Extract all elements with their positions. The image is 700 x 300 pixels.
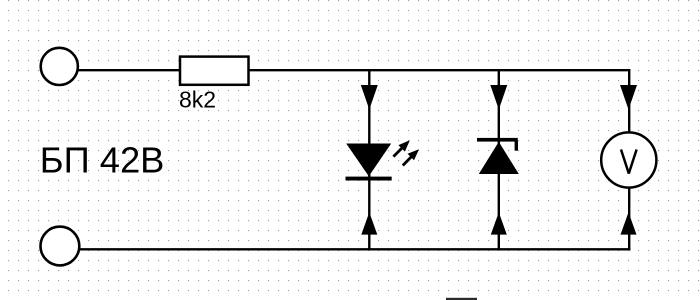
terminal bottom-left <box>41 227 80 266</box>
LED cathode bar <box>346 177 392 181</box>
wire top rail <box>79 69 631 71</box>
wire bottom rail <box>79 248 630 250</box>
clipped black mark at bottom edge <box>446 298 477 300</box>
voltmeter U1 circle <box>601 132 656 187</box>
current arrow down, voltmeter branch <box>620 85 637 110</box>
resistor value label 8k2 <box>179 87 216 113</box>
svg-text:8k2: 8k2 <box>179 87 216 113</box>
label БП 42В <box>40 140 165 181</box>
resistor 8k2 <box>180 57 249 85</box>
wire zener branch <box>498 69 500 250</box>
LED light arrow 2 <box>403 149 419 165</box>
terminal top-left <box>41 48 78 85</box>
zener cathode bar <box>477 138 518 142</box>
svg-text:БП 42В: БП 42В <box>40 140 165 181</box>
current arrow down, zener branch <box>490 85 507 110</box>
wire LED branch <box>368 69 370 250</box>
LED light arrow 1 <box>393 140 409 156</box>
LED triangle (anode) <box>346 144 391 177</box>
current arrow up, zener branch <box>491 212 507 234</box>
zener triangle (anode, pointing up) <box>479 142 519 174</box>
current arrow up, voltmeter branch <box>621 212 637 234</box>
voltmeter letter V <box>621 150 637 174</box>
current arrow up, LED branch <box>361 212 377 234</box>
current arrow down, LED branch <box>361 85 378 110</box>
wire right drop (voltmeter branch) <box>628 69 630 250</box>
zener cathode bar hook <box>515 141 518 151</box>
